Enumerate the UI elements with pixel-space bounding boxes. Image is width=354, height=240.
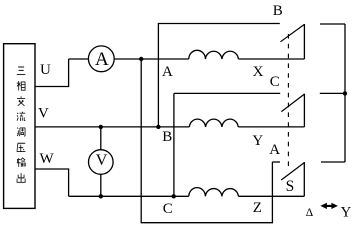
label 流 (source box text char 4) <box>17 112 25 121</box>
label 三 (source box text char 1) <box>17 67 26 74</box>
inductor L3 (winding C-Z) <box>189 188 239 197</box>
svg-text:B: B <box>273 3 283 19</box>
wire voltmeter bottom lead <box>100 174 102 196</box>
voltmeter V1 <box>89 150 114 175</box>
svg-text:B: B <box>162 129 172 145</box>
dashed gang link of switch S <box>287 34 289 170</box>
svg-text:V: V <box>96 152 108 169</box>
star bus stub 2 <box>320 92 345 94</box>
label 调 (source box text char 5) <box>17 128 25 137</box>
wire A-row: ammeter to coil A <box>114 58 189 60</box>
label 出 (source box text char 8) <box>17 173 25 182</box>
svg-text:Z: Z <box>253 200 262 216</box>
svg-text:W: W <box>40 151 55 167</box>
svg-text:A: A <box>269 142 280 158</box>
inductor L2 (winding B-Y) <box>189 119 238 127</box>
switch S2 pole <box>303 94 305 127</box>
wire U: box to ammeter step <box>35 59 69 87</box>
star bus stub 3 <box>321 161 345 163</box>
wire Z: coil C end to switch S3 <box>238 195 304 197</box>
switch S3 blade <box>281 163 304 180</box>
wire A-row left: step to ammeter <box>69 58 89 60</box>
wire V: box to switch S2 common (row B) <box>35 126 189 128</box>
svg-text:V: V <box>38 106 49 122</box>
ammeter A1 <box>88 46 114 72</box>
junction dot node B riser <box>156 125 160 129</box>
wire bracket node B: riser and top run to S1 throw contact <box>158 24 279 127</box>
junction dot voltmeter bottom <box>99 194 103 198</box>
switch S1 pole <box>303 24 305 59</box>
svg-text:Δ: Δ <box>306 207 313 219</box>
star bus vertical <box>344 24 346 162</box>
svg-text:A: A <box>95 49 109 70</box>
wire S3 throw contact stub <box>272 161 280 163</box>
wire C-row: step to coil C <box>69 195 189 197</box>
svg-text:X: X <box>253 64 264 80</box>
wire bracket node C: riser and run to S2 throw contact <box>174 93 280 196</box>
label 交 (source box text char 3) <box>17 96 25 106</box>
svg-text:U: U <box>40 62 51 78</box>
junction dot voltmeter top <box>99 125 103 129</box>
svg-text:C: C <box>163 201 173 217</box>
svg-text:Y: Y <box>252 133 263 149</box>
switch S2 blade <box>281 94 304 112</box>
wire Y: coil B end to switch S2 <box>238 126 304 128</box>
svg-text:C: C <box>270 74 280 90</box>
star bus stub 1 <box>320 23 345 25</box>
wire bracket node A: drop from A-row, bottom run, riser to S3 throw contact <box>141 59 272 223</box>
wire voltmeter top lead <box>100 127 102 150</box>
svg-text:S: S <box>286 178 295 195</box>
svg-text:Y: Y <box>341 205 352 221</box>
junction dot node A feed <box>139 57 143 61</box>
switch S3 pole <box>303 162 305 196</box>
junction dot node C riser <box>172 194 176 198</box>
label 输 (source box text char 7) <box>17 158 25 167</box>
label 相 (source box text char 2) <box>17 81 25 91</box>
wire X: coil A end to switch S1 common <box>238 58 304 60</box>
double arrow delta-star <box>320 203 338 209</box>
label 压 (source box text char 6) <box>17 143 25 151</box>
junction dot star bus <box>343 91 347 95</box>
source box (three-phase AC regulated supply) <box>4 44 35 209</box>
switch S1 blade <box>280 24 304 41</box>
inductor L1 (winding A-X) <box>189 50 239 59</box>
svg-text:A: A <box>162 64 173 80</box>
wire W: box down-step to row C <box>35 169 69 196</box>
